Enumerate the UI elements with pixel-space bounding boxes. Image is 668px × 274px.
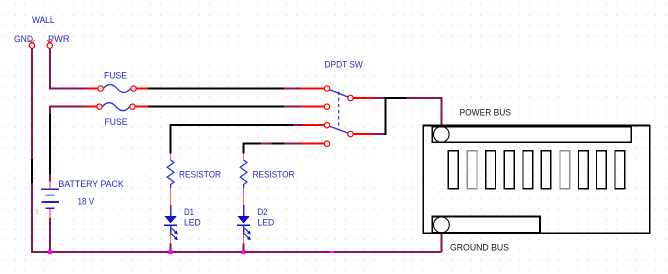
bus slot 9 xyxy=(597,151,607,189)
bus slot 2 xyxy=(467,151,477,189)
svg-text:POWER BUS: POWER BUS xyxy=(460,108,512,119)
battery pack BT1 18 V xyxy=(36,179,124,218)
ground rail wire (bottom) xyxy=(31,251,442,253)
bus slot 10 xyxy=(615,151,625,189)
power bus bar xyxy=(432,108,631,143)
svg-text:RESISTOR: RESISTOR xyxy=(179,170,221,181)
bus slot 8 xyxy=(579,151,589,189)
svg-text:BATTERY PACK: BATTERY PACK xyxy=(59,179,125,190)
bus slot 4 xyxy=(504,151,514,189)
svg-text:GROUND BUS: GROUND BUS xyxy=(450,243,509,254)
wire fuse F2 to switch pin 2 xyxy=(148,106,324,108)
svg-text:18 V: 18 V xyxy=(78,197,95,208)
svg-text:D1: D1 xyxy=(184,207,194,218)
bus slot 1 xyxy=(448,151,458,189)
wire fuse F1 to switch pin 1 xyxy=(148,88,324,90)
ground bus pin circle xyxy=(434,217,450,233)
wire GND vertical xyxy=(31,48,33,253)
svg-text:WALL: WALL xyxy=(32,15,55,26)
fuse F2 xyxy=(86,103,148,128)
terminal PWR xyxy=(47,34,70,48)
wire switch pole B to junction xyxy=(354,97,387,135)
bus slot 7 xyxy=(560,151,570,189)
wire ground rail up to ground bus xyxy=(440,225,442,252)
fuse F1 xyxy=(86,71,148,93)
resistor R2 xyxy=(240,154,294,205)
wire PWR vertical to fuse row xyxy=(49,48,86,89)
svg-text:FUSE: FUSE xyxy=(104,71,127,82)
junction D2 / ground rail xyxy=(242,250,246,254)
LED D2 xyxy=(237,205,274,253)
ground bus bar xyxy=(432,217,540,254)
wire switch pin 4 to resistor R2 branch xyxy=(243,143,325,154)
svg-text:FUSE: FUSE xyxy=(105,117,128,128)
svg-text:DPDT SW: DPDT SW xyxy=(325,60,363,71)
bus slot 5 xyxy=(523,151,533,189)
bus board outline xyxy=(423,125,649,233)
terminal GND xyxy=(14,34,35,48)
junction D1 / ground rail xyxy=(169,250,173,254)
node WALL label xyxy=(32,15,55,26)
bus slot 3 xyxy=(486,151,496,189)
bus slot 6 xyxy=(541,151,551,189)
resistor R1 xyxy=(167,154,221,205)
svg-text:LED: LED xyxy=(258,218,275,229)
wire battery positive up to fuse row 2 xyxy=(49,106,86,182)
wire switch pole A to power bus xyxy=(354,97,443,135)
switch S1 DPDT SW xyxy=(324,60,363,147)
wire switch pin 3 to resistor R1 branch xyxy=(170,124,325,153)
svg-text:LED: LED xyxy=(184,218,201,229)
junction mid ground rail xyxy=(330,251,335,253)
svg-text:RESISTOR: RESISTOR xyxy=(253,170,295,181)
junction battery / ground rail xyxy=(48,250,52,254)
svg-text:D2: D2 xyxy=(258,207,268,218)
LED D1 xyxy=(164,205,201,253)
wire battery negative to ground rail xyxy=(49,218,51,253)
power bus pin circle xyxy=(434,127,450,143)
